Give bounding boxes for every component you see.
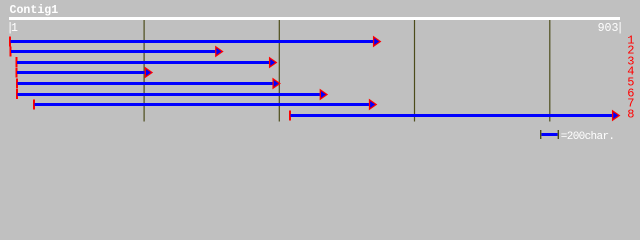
- read 1 arrowhead: [374, 37, 381, 46]
- read 3 line: [17, 61, 270, 64]
- read 5 start tick: [16, 79, 18, 89]
- grid tick 400: [278, 20, 280, 122]
- svg-text:Contig1: Contig1: [10, 4, 59, 17]
- read 7 arrowhead: [370, 100, 377, 109]
- read 6 line: [18, 93, 321, 96]
- read 8 arrowhead: [613, 111, 620, 120]
- read 2 line: [11, 50, 216, 53]
- read 1 start tick: [9, 37, 11, 47]
- read 7 start tick: [33, 100, 35, 110]
- read 2 arrowhead: [216, 47, 223, 56]
- read 3 arrowhead: [270, 58, 277, 67]
- read 5 line: [18, 82, 275, 85]
- read 4 line: [17, 71, 146, 74]
- legend right end bar: [558, 130, 559, 139]
- read 6 arrowhead: [320, 90, 327, 99]
- consensus scale bar: [9, 17, 620, 20]
- read 5 arrowhead: [273, 79, 280, 88]
- svg-text:8: 8: [627, 108, 634, 122]
- read 6 start tick: [16, 89, 18, 99]
- svg-text:|: |: [617, 22, 624, 35]
- legend blue segment: [541, 133, 557, 136]
- svg-text:903: 903: [598, 22, 619, 35]
- read 4 arrowhead: [145, 68, 152, 77]
- legend left end bar: [540, 130, 541, 139]
- read 1 line: [11, 40, 375, 43]
- read 8 line: [291, 114, 614, 117]
- grid tick 200: [143, 20, 145, 122]
- read 7 line: [35, 103, 371, 106]
- read 4 start tick: [16, 68, 18, 78]
- svg-text:=200char.: =200char.: [561, 131, 615, 143]
- svg-text:1: 1: [11, 22, 18, 35]
- grid tick 800: [549, 20, 551, 122]
- grid tick 600: [414, 20, 416, 122]
- read 8 start tick: [289, 111, 291, 121]
- read 3 start tick: [16, 57, 18, 67]
- read 2 start tick: [10, 47, 12, 57]
